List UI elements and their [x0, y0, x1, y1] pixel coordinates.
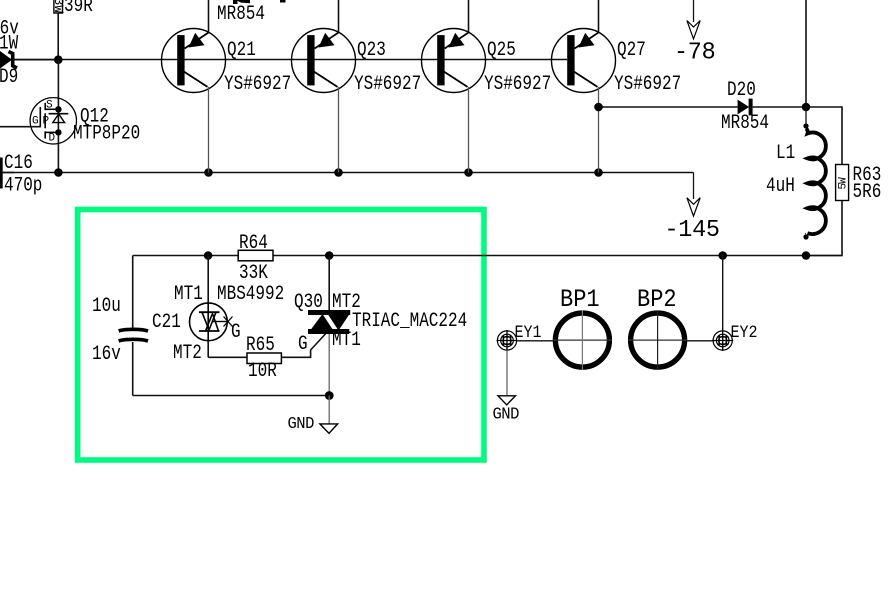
svg-text:YS#6927: YS#6927 [354, 74, 421, 96]
svg-text:R65: R65 [246, 335, 275, 357]
svg-text:BP1: BP1 [560, 286, 600, 315]
svg-text:-145: -145 [665, 217, 720, 244]
buzzer BP1 [553, 286, 612, 370]
resistor R65 10R [246, 334, 326, 383]
wire to gate [281, 334, 325, 358]
diode D20 MR854 [721, 80, 806, 135]
junction dots bus2 [54, 168, 603, 177]
inductor L1 4uH [766, 123, 826, 239]
svg-text:470p: 470p [4, 175, 42, 197]
pad EY1 [497, 322, 542, 351]
svg-text:MT1: MT1 [174, 284, 203, 306]
transistor Q27 [552, 0, 682, 173]
svg-text:Q25: Q25 [487, 40, 516, 62]
wire EY2 up to bus [722, 256, 724, 331]
svg-text:GND: GND [493, 405, 519, 423]
power arrow -78 [674, 0, 715, 67]
partial diode at top above Q21 [233, 0, 286, 4]
svg-text:33K: 33K [239, 263, 268, 285]
node D20/L1 [802, 103, 811, 112]
wire D20 row [599, 106, 738, 108]
green annotation box [78, 210, 484, 461]
ground GND (EY1) [493, 396, 519, 424]
triac Q30 TRIAC_MAC224 [294, 256, 467, 396]
svg-text:D9: D9 [0, 67, 18, 89]
wire BP2 to EY2 [687, 340, 713, 342]
capacitor C21 [92, 256, 181, 396]
bottom wire green box [133, 395, 330, 397]
svg-text:4uH: 4uH [766, 176, 795, 198]
svg-text:10u: 10u [92, 296, 121, 318]
svg-text:EY2: EY2 [731, 322, 758, 343]
svg-text:R64: R64 [239, 233, 268, 255]
svg-text:-78: -78 [674, 39, 715, 66]
svg-text:BP2: BP2 [637, 286, 677, 315]
svg-text:TRIAC_MAC224: TRIAC_MAC224 [352, 311, 467, 333]
node junction at 39R/D9 [54, 55, 63, 64]
svg-text:YS#6927: YS#6927 [614, 74, 681, 96]
transistor Q25 [422, 0, 552, 173]
power arrow -145 [665, 173, 720, 245]
node GND junction [325, 391, 334, 400]
wire R63 loop [806, 107, 842, 256]
svg-text:Q30: Q30 [294, 292, 323, 314]
transistor Q21 [162, 0, 292, 173]
svg-text:MT1: MT1 [332, 330, 361, 352]
svg-text:39R: 39R [64, 0, 93, 18]
svg-text:MTP8P20: MTP8P20 [73, 123, 140, 145]
svg-text:MR854: MR854 [217, 4, 265, 26]
svg-text:G: G [231, 322, 241, 344]
svg-text:1W: 1W [0, 33, 18, 55]
wire Q12 column [57, 60, 59, 173]
wire bus2 y=172.5 [2, 172, 694, 174]
capacitor C16 [1, 153, 42, 198]
svg-text:YS#6927: YS#6927 [224, 74, 291, 96]
svg-text:Q23: Q23 [357, 40, 386, 62]
resistor R39 39R (cut off at top) [51, 0, 93, 60]
svg-text:G: G [298, 334, 308, 356]
node Q27/D20 [594, 103, 603, 112]
wire node to L1 [805, 107, 807, 126]
svg-text:10R: 10R [248, 361, 277, 383]
svg-text:MBS4992: MBS4992 [217, 284, 284, 306]
pad EY2 [712, 322, 757, 351]
svg-text:YS#6927: YS#6927 [484, 74, 551, 96]
svg-text:GND: GND [288, 415, 314, 433]
svg-text:L1: L1 [776, 143, 795, 165]
svg-text:16v: 16v [92, 344, 121, 366]
gate wire [0, 126, 40, 128]
svg-text:Q21: Q21 [227, 40, 256, 62]
svg-text:G: G [32, 116, 38, 128]
svg-text:5R6: 5R6 [853, 182, 882, 204]
resistor R63 5R6 5W [836, 165, 882, 204]
wire EY1 down to GND [506, 350, 508, 395]
transistor Q12 MTP8P20 [0, 98, 140, 146]
wire [57, 13, 59, 60]
transistor Q23 [292, 0, 422, 173]
svg-text:D20: D20 [727, 80, 756, 102]
main bus y=255.5 [133, 255, 842, 257]
svg-text:Q27: Q27 [617, 40, 646, 62]
X no-connect on gate [224, 317, 233, 327]
wire EY1 to BP1 [517, 340, 553, 342]
wire base bus y=59.5 [0, 59, 567, 61]
ground GND (green box) [288, 396, 338, 434]
svg-text:EY1: EY1 [515, 322, 542, 343]
junction dots bus3 [204, 251, 811, 260]
buzzer BP2 [628, 286, 687, 370]
body diode [49, 113, 69, 115]
svg-text:C16: C16 [4, 153, 33, 175]
svg-text:MT2: MT2 [173, 343, 202, 365]
svg-text:5W: 5W [838, 177, 850, 190]
diac MBS4992 (SBS) [173, 256, 284, 365]
wire top right vertical [805, 0, 807, 107]
wire MT2 down [207, 341, 209, 358]
zener diode D9 [0, 18, 59, 89]
svg-text:MR854: MR854 [721, 113, 769, 135]
resistor R64 33K [238, 233, 273, 285]
svg-text:C21: C21 [152, 312, 181, 334]
pin dots [55, 106, 61, 112]
